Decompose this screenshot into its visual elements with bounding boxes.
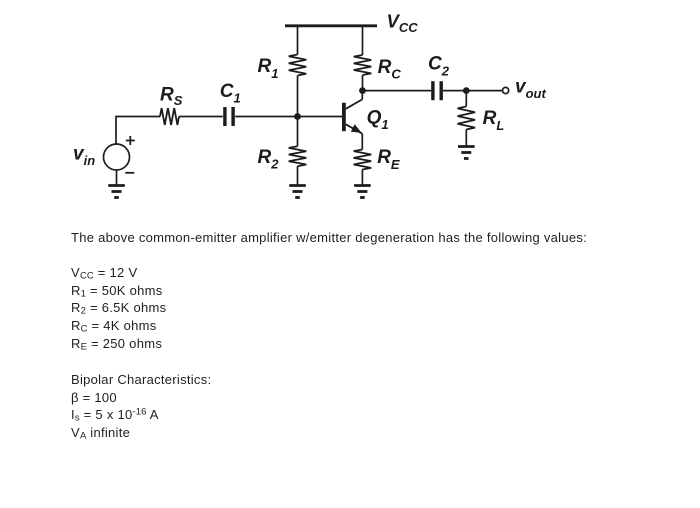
ground: below RE bbox=[354, 186, 371, 198]
wire: Vcc rail to R1 top bbox=[297, 26, 299, 55]
resistor R2 bbox=[289, 146, 307, 166]
transistor Q1 bbox=[342, 91, 362, 150]
resistor RE bbox=[354, 150, 372, 170]
ground: below vin bbox=[108, 186, 125, 198]
resistor RS bbox=[160, 108, 179, 125]
value R2 bbox=[71, 301, 166, 315]
terminal: vout open circle bbox=[503, 87, 509, 93]
value VA bbox=[71, 426, 130, 440]
svg-text:Q1: Q1 bbox=[367, 107, 389, 132]
wire: output node down to RL bbox=[465, 91, 467, 107]
value beta bbox=[71, 391, 117, 405]
resistor RC bbox=[354, 55, 372, 75]
capacitor C2 bbox=[431, 81, 443, 100]
svg-text:RS: RS bbox=[160, 85, 183, 108]
node: base node junction bbox=[294, 113, 301, 120]
wire: RC bottom to collector node bbox=[362, 75, 364, 91]
description paragraph bbox=[71, 231, 587, 245]
source vin circle bbox=[104, 144, 130, 170]
wire: Vcc rail to RC top bbox=[362, 26, 364, 55]
resistor RL bbox=[458, 107, 476, 130]
wire: output node to vout terminal bbox=[466, 90, 502, 92]
wire: vin top to Rs bbox=[116, 117, 160, 145]
wire: base node to Q1 base bbox=[298, 116, 343, 118]
ground: below R2 bbox=[289, 186, 306, 198]
svg-text:RE: RE bbox=[377, 147, 400, 172]
node: output junction bbox=[463, 87, 470, 94]
svg-text:RC: RC bbox=[378, 57, 402, 82]
wire: R2 bottom to ground bbox=[297, 166, 299, 185]
value RC bbox=[71, 319, 157, 333]
capacitor C1 bbox=[223, 107, 235, 126]
wire: base node down to R2 bbox=[297, 117, 299, 147]
wire: RL bottom to ground bbox=[465, 130, 467, 147]
wire: vin bottom to ground bbox=[116, 170, 118, 186]
wire: C1 to base node bbox=[235, 116, 297, 118]
svg-text:RL: RL bbox=[483, 108, 505, 133]
svg-text:R2: R2 bbox=[258, 147, 280, 172]
svg-text:vout: vout bbox=[515, 77, 546, 101]
wire: C2 to output node bbox=[443, 90, 466, 92]
Vcc power rail bbox=[285, 24, 377, 27]
value Is bbox=[71, 408, 159, 422]
value R1 bbox=[71, 284, 163, 298]
svg-text:vin: vin bbox=[73, 144, 95, 169]
polarity plus sign bbox=[126, 136, 135, 145]
svg-text:VCC: VCC bbox=[387, 10, 419, 35]
resistor R1 bbox=[289, 55, 307, 76]
ground: below RL bbox=[458, 147, 475, 159]
wire: collector node to C2 bbox=[363, 90, 432, 92]
wire: R1 bottom to base node bbox=[297, 76, 299, 117]
heading bipolar characteristics bbox=[71, 373, 211, 387]
svg-text:C2: C2 bbox=[428, 54, 450, 79]
node: collector junction bbox=[359, 87, 366, 94]
wire: RE bottom to ground bbox=[361, 170, 363, 186]
wire: Rs to C1 bbox=[179, 116, 223, 118]
polarity minus sign bbox=[125, 172, 134, 174]
svg-text:C1: C1 bbox=[220, 81, 241, 106]
svg-text:R1: R1 bbox=[258, 56, 279, 81]
value RE bbox=[71, 337, 162, 351]
value VCC bbox=[71, 266, 137, 280]
